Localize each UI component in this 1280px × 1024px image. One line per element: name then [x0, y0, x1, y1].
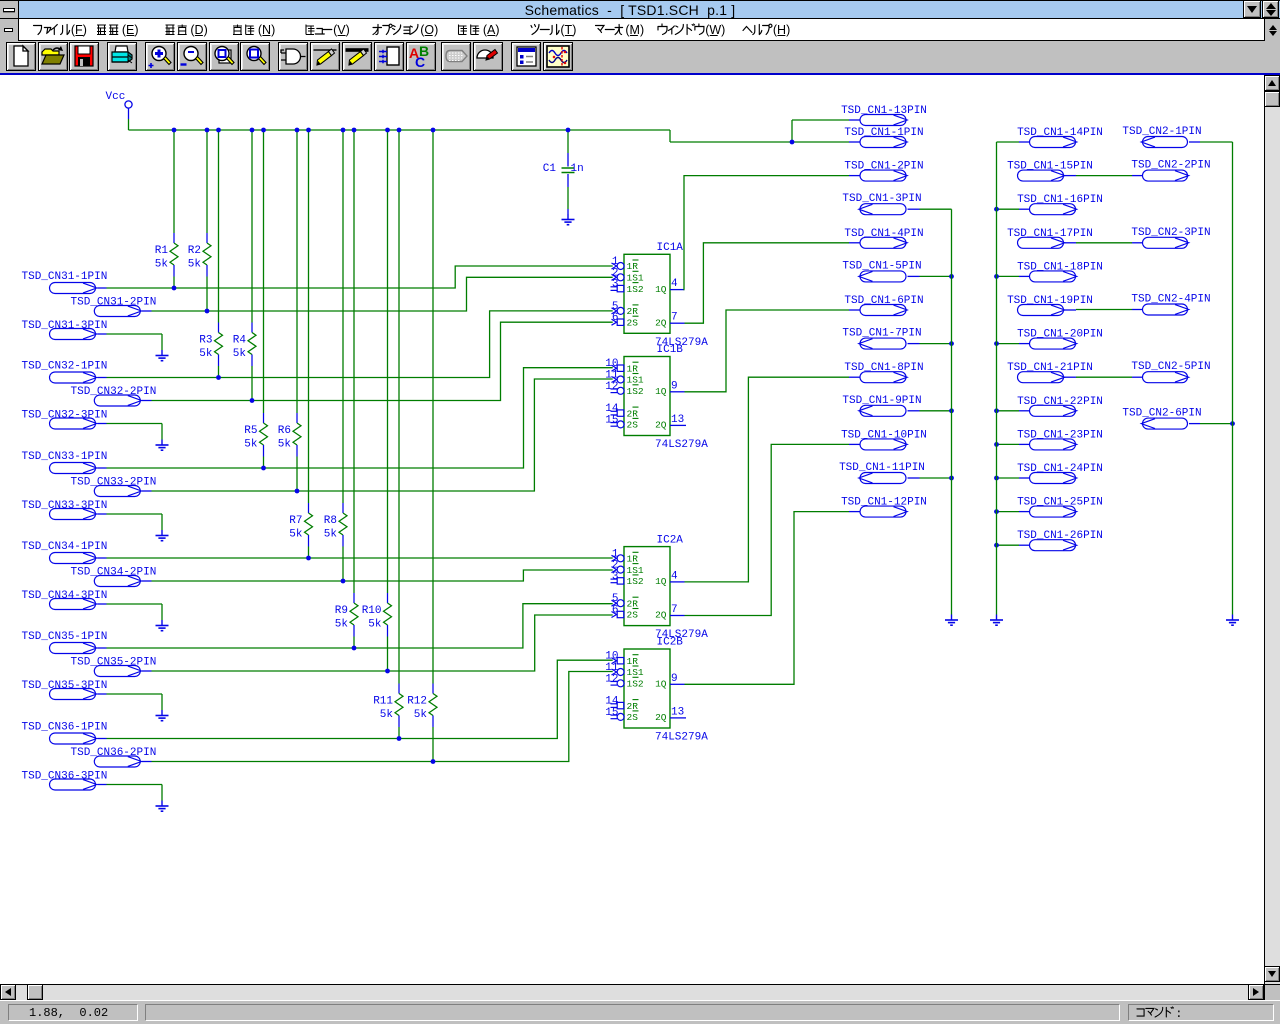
connector port TSD_CN31-2PIN [71, 297, 157, 317]
connector port TSD_CN2-5PIN [1131, 361, 1210, 383]
resistor R11 5k [373, 684, 403, 739]
menu item M [596, 23, 645, 37]
connector port TSD_CN33-2PIN [71, 477, 157, 497]
svg-text:1Q: 1Q [655, 284, 667, 295]
svg-text:1S2: 1S2 [627, 284, 644, 295]
svg-text:1Q: 1Q [655, 386, 667, 397]
connector port TSD_CN1-7PIN [842, 328, 921, 350]
MDI child restore button [1264, 19, 1280, 41]
svg-text:TSD_CN1-24PIN: TSD_CN1-24PIN [1017, 463, 1103, 475]
wire TSD_CN1-14PIN to ground bus [997, 141, 1020, 143]
wire TSD_CN1 to TSD_CN2-3PIN [1076, 242, 1132, 244]
svg-text:TSD_CN1-1PIN: TSD_CN1-1PIN [844, 127, 923, 139]
wire IC1A pin 7 to TSD_CN1-4PIN [685, 243, 850, 323]
svg-text:1S1: 1S1 [627, 273, 644, 284]
svg-text:TSD_CN1-23PIN: TSD_CN1-23PIN [1017, 429, 1103, 441]
svg-text:TSD_CN1-14PIN: TSD_CN1-14PIN [1017, 127, 1103, 139]
svg-text:TSD_CN34-2PIN: TSD_CN34-2PIN [71, 567, 157, 579]
svg-text:(O): (O) [420, 23, 438, 37]
wire TSD_CN35-2PIN to IC2A pin 6 [152, 615, 613, 671]
svg-text:R7: R7 [289, 515, 302, 527]
wire C1 to ground [567, 187, 569, 209]
menu bar [0, 19, 1280, 41]
wire TSD_CN1-14..26 ground bus [996, 142, 998, 615]
toolbar button 4 [107, 42, 137, 71]
op-amp / latch IC1B 74LS279A [605, 344, 708, 451]
status bar [0, 1000, 1280, 1024]
menu item T [531, 23, 576, 37]
connector port TSD_CN33-3PIN [22, 500, 108, 520]
toolbar button 7 [209, 42, 239, 71]
svg-text:1n: 1n [571, 163, 584, 175]
wire TSD_CN1-24PIN to ground bus [994, 476, 1019, 481]
toolbar button 14 [441, 42, 471, 71]
wire Vcc pull-up column for R5 [261, 128, 266, 413]
connector port TSD_CN1-2PIN [844, 161, 923, 182]
connector port TSD_CN34-3PIN [22, 590, 108, 610]
svg-text:7: 7 [671, 312, 678, 324]
connector port TSD_CN32-2PIN [71, 386, 157, 406]
connector port TSD_CN34-1PIN [22, 541, 108, 564]
menu item F [34, 23, 87, 37]
wire TSD_CN1-26PIN to ground bus [994, 543, 1019, 548]
menu labels (drawn glyphs) [0, 0, 1280, 41]
svg-text:TSD_CN32-1PIN: TSD_CN32-1PIN [22, 361, 108, 373]
svg-text:TSD_CN33-2PIN: TSD_CN33-2PIN [71, 477, 157, 489]
connector port TSD_CN1-10PIN [841, 429, 927, 450]
connector port TSD_CN1-9PIN [842, 395, 921, 417]
wire TSD_CN35-1PIN to IC2A pin 5 [107, 604, 613, 648]
svg-text:TSD_CN1-6PIN: TSD_CN1-6PIN [844, 295, 923, 307]
connector port TSD_CN2-3PIN [1131, 227, 1210, 249]
svg-text:1R: 1R [627, 656, 639, 667]
junction Vcc bus / TSD_CN1-13PIN branch [790, 140, 795, 145]
resistor R6 5k [278, 413, 301, 491]
wire TSD_CN33-2PIN to IC1B pin 11 [152, 379, 613, 491]
ground for TSD_CN1 odd pins [945, 615, 958, 626]
svg-text:2Q: 2Q [655, 317, 667, 328]
svg-text:TSD_CN36-1PIN: TSD_CN36-1PIN [22, 722, 108, 734]
wire TSD_CN33-3PIN to ground [107, 514, 163, 530]
menu item N [233, 23, 275, 37]
toolbar button 9 [278, 42, 308, 71]
ground for TSD_CN31-3PIN [156, 350, 169, 361]
wire TSD_CN36-2PIN to IC2B pin 11 [152, 672, 613, 762]
svg-text:4: 4 [671, 278, 678, 290]
menu item V [306, 23, 350, 37]
wire TSD_CN32-1PIN to IC1A pin 5 [107, 311, 613, 378]
connector port TSD_CN1-15PIN [1007, 161, 1093, 182]
connector port TSD_CN36-2PIN [71, 747, 157, 767]
wire TSD_CN31-1PIN to IC1A pin 1 [107, 266, 613, 288]
op-amp / latch IC1A 74LS279A [611, 242, 709, 349]
svg-text:1S2: 1S2 [627, 386, 644, 397]
corner [1264, 984, 1280, 1000]
svg-text:5k: 5k [335, 619, 349, 631]
wire Vcc pull-up column for R12 [431, 128, 436, 684]
resistor R3 5k [199, 323, 222, 378]
svg-text:2Q: 2Q [655, 610, 667, 621]
svg-text:1S1: 1S1 [627, 565, 644, 576]
svg-text:TSD_CN1-20PIN: TSD_CN1-20PIN [1017, 329, 1103, 341]
svg-text:5k: 5k [324, 529, 338, 541]
svg-text:5k: 5k [414, 709, 428, 721]
svg-text:5k: 5k [278, 439, 292, 451]
wire Vcc pull-up column for R6 [295, 128, 300, 413]
connector port TSD_CN1-13PIN [841, 105, 927, 126]
svg-text:(A): (A) [483, 23, 500, 37]
window title bar [0, 0, 1280, 19]
svg-text:(F): (F) [71, 23, 87, 37]
svg-text:(D): (D) [190, 23, 207, 37]
svg-text:C1: C1 [543, 163, 557, 175]
resistor R8 5k [324, 503, 347, 581]
wire TSD_CN31-3PIN to ground [107, 334, 163, 350]
toolbar button 17 [543, 42, 573, 71]
svg-text:TSD_CN36-2PIN: TSD_CN36-2PIN [71, 747, 157, 759]
svg-text:TSD_CN33-1PIN: TSD_CN33-1PIN [22, 451, 108, 463]
svg-text:R8: R8 [324, 515, 337, 527]
connector port TSD_CN1-19PIN [1007, 295, 1093, 316]
wire Vcc pull-up column for R9 [352, 128, 357, 593]
connector port TSD_CN1-26PIN [1017, 530, 1103, 551]
wire TSD_CN1 to TSD_CN2-5PIN [1076, 376, 1132, 378]
wire TSD_CN1 to TSD_CN2-4PIN [1076, 309, 1132, 311]
wire Vcc bus [129, 119, 850, 142]
svg-text:(E): (E) [122, 23, 139, 37]
svg-text:5k: 5k [188, 259, 202, 271]
capacitor C1 1n [543, 153, 584, 187]
svg-text:5k: 5k [199, 348, 213, 360]
resistor R12 5k [407, 684, 437, 762]
svg-text:TSD_CN1-2PIN: TSD_CN1-2PIN [844, 161, 923, 173]
resistor R4 5k [233, 323, 256, 401]
wire TSD_CN1 to TSD_CN2-2PIN [1076, 175, 1132, 177]
connector port TSD_CN35-3PIN [22, 680, 108, 700]
svg-text:TSD_CN1-18PIN: TSD_CN1-18PIN [1017, 261, 1103, 273]
svg-text:(W): (W) [705, 23, 725, 37]
system menu box [0, 0, 19, 19]
wire Vcc to C1 [566, 128, 571, 153]
resistor R1 5k [155, 233, 178, 288]
wire TSD_CN1-7PIN to ground bus [920, 341, 954, 346]
toolbar button 5 [145, 42, 175, 71]
svg-text:5k: 5k [155, 259, 169, 271]
ground for TSD_CN36-3PIN [156, 801, 169, 812]
vertical scrollbar [1264, 75, 1280, 984]
svg-text:9: 9 [671, 380, 678, 392]
ground for TSD_CN32-3PIN [156, 440, 169, 451]
connector port TSD_CN32-1PIN [22, 361, 108, 384]
svg-text:R10: R10 [362, 605, 382, 617]
wire Vcc pull-up column for R10 [385, 128, 390, 593]
wire TSD_CN1-23PIN to ground bus [994, 442, 1019, 447]
svg-text:TSD_CN1-22PIN: TSD_CN1-22PIN [1017, 396, 1103, 408]
svg-text:5k: 5k [380, 709, 394, 721]
svg-text:R6: R6 [278, 425, 291, 437]
wire TSD_CN1-9PIN to ground bus [920, 408, 954, 413]
svg-text:2R: 2R [627, 598, 639, 609]
connector port TSD_CN31-3PIN [22, 320, 108, 340]
svg-text:5k: 5k [233, 348, 247, 360]
wire Vcc pull-up column for R8 [341, 128, 346, 503]
svg-text:1R: 1R [627, 363, 639, 374]
svg-text:C: C [415, 54, 425, 69]
svg-text:R12: R12 [407, 696, 427, 708]
connector port TSD_CN36-3PIN [22, 771, 108, 791]
toolbar button 8 [240, 42, 270, 71]
svg-text:IC1A: IC1A [657, 242, 684, 254]
svg-text:1S1: 1S1 [627, 375, 644, 386]
wire TSD_CN1-3PIN to ground bus [920, 208, 952, 210]
toolbar button 2 [38, 42, 68, 71]
connector port TSD_CN1-3PIN [842, 193, 921, 215]
svg-text:R11: R11 [373, 696, 393, 708]
svg-text:R9: R9 [335, 605, 348, 617]
connector port TSD_CN2-2PIN [1131, 160, 1210, 182]
connector port TSD_CN2-6PIN [1122, 408, 1201, 430]
wire TSD_CN36-1PIN to IC2B pin 10 [107, 660, 613, 738]
svg-text:(M): (M) [625, 23, 644, 37]
svg-text:74LS279A: 74LS279A [655, 439, 708, 451]
svg-text:2Q: 2Q [655, 712, 667, 723]
svg-text:74LS279A: 74LS279A [655, 732, 708, 744]
svg-text:5k: 5k [244, 439, 258, 451]
svg-text:TSD_CN1-25PIN: TSD_CN1-25PIN [1017, 497, 1103, 509]
connector port TSD_CN1-6PIN [844, 295, 923, 316]
ground for TSD_CN34-3PIN [156, 620, 169, 631]
svg-text:TSD_CN1-10PIN: TSD_CN1-10PIN [841, 429, 927, 441]
svg-text:2S: 2S [627, 610, 639, 621]
wire TSD_CN34-3PIN to ground [107, 604, 163, 620]
connector port TSD_CN1-18PIN [1017, 261, 1103, 282]
connector port TSD_CN35-1PIN [22, 631, 108, 654]
horizontal scrollbar [0, 984, 1264, 1000]
ground for TSD_CN35-3PIN [156, 710, 169, 721]
svg-text:5k: 5k [289, 529, 303, 541]
menu item D [166, 23, 208, 37]
menu item H [743, 23, 790, 37]
connector port TSD_CN1-12PIN [841, 497, 927, 517]
wire TSD_CN31-2PIN to IC1A pin 2 [152, 277, 613, 311]
svg-text:(H): (H) [773, 23, 790, 37]
wire TSD_CN32-3PIN to ground [107, 424, 163, 440]
connector port TSD_CN35-2PIN [71, 657, 157, 677]
connector port TSD_CN33-1PIN [22, 451, 108, 474]
wire Vcc pull-up column for R3 [216, 128, 221, 323]
wire Vcc pull-up column for R2 [205, 128, 210, 233]
svg-text:TSD_CN1-4PIN: TSD_CN1-4PIN [844, 228, 923, 240]
toolbar separator line [0, 73, 1280, 75]
wire Vcc pull-up column for R4 [250, 128, 255, 323]
svg-text:1Q: 1Q [655, 679, 667, 690]
svg-text:2R: 2R [627, 408, 639, 419]
connector port TSD_CN1-20PIN [1017, 329, 1103, 350]
toolbar button 10 [310, 42, 340, 71]
MDI child system box [0, 19, 19, 41]
svg-text:IC2B: IC2B [657, 637, 684, 649]
svg-text:2Q: 2Q [655, 420, 667, 431]
svg-text:IC2A: IC2A [657, 534, 684, 546]
svg-text:7: 7 [671, 604, 678, 616]
wire TSD_CN33-1PIN to IC1B pin 10 [107, 368, 613, 468]
svg-text:(N): (N) [258, 23, 275, 37]
svg-text:TSD_CN31-2PIN: TSD_CN31-2PIN [71, 297, 157, 309]
wire TSD_CN36-3PIN to ground [107, 785, 163, 801]
wire IC2A pin 4 to TSD_CN1-8PIN [685, 377, 850, 582]
op-amp / latch IC2A 74LS279A [611, 534, 709, 641]
svg-text:R3: R3 [199, 335, 212, 347]
connector port TSD_CN36-1PIN [22, 722, 108, 745]
svg-text:TSD_CN35-2PIN: TSD_CN35-2PIN [71, 657, 157, 669]
connector port TSD_CN32-3PIN [22, 410, 108, 430]
svg-text:2S: 2S [627, 420, 639, 431]
connector port TSD_CN1-14PIN [1017, 127, 1103, 148]
junction dots at pull-up resistor rows [172, 286, 436, 764]
svg-text:Vcc: Vcc [106, 91, 126, 103]
svg-text:1Q: 1Q [655, 576, 667, 587]
svg-text:13: 13 [671, 414, 684, 426]
menu item O [373, 23, 438, 37]
connector port TSD_CN1-23PIN [1017, 429, 1103, 450]
wire IC1B pin 9 to TSD_CN1-6PIN [685, 310, 850, 392]
op-amp / latch IC2B 74LS279A [605, 637, 708, 744]
toolbar button 12 [374, 42, 404, 71]
svg-text:TSD_CN32-2PIN: TSD_CN32-2PIN [71, 386, 157, 398]
connector port TSD_CN1-24PIN [1017, 463, 1103, 484]
svg-text:2R: 2R [627, 306, 639, 317]
wire TSD_CN1-22PIN to ground bus [994, 408, 1019, 413]
toolbar button 6 [177, 42, 207, 71]
connector port TSD_CN1-4PIN [844, 228, 923, 249]
svg-text:13: 13 [671, 706, 684, 718]
svg-text:1R: 1R [627, 554, 639, 565]
toolbar button 11 [342, 42, 372, 71]
wire TSD_CN1-11PIN to ground bus [920, 476, 954, 481]
wire IC2A pin 7 to TSD_CN1-10PIN [685, 444, 850, 615]
ground for TSD_CN2 pins [1226, 615, 1239, 626]
toolbar [0, 41, 1280, 73]
title text [0, 2, 1260, 18]
svg-text:2S: 2S [627, 712, 639, 723]
wire Vcc pull-up column for R7 [306, 128, 311, 503]
wire Vcc pull-up column for R11 [397, 128, 402, 684]
svg-text:TSD_CN1-26PIN: TSD_CN1-26PIN [1017, 530, 1103, 542]
svg-text:TSD_CN1-16PIN: TSD_CN1-16PIN [1017, 194, 1103, 206]
svg-text:TSD_CN31-1PIN: TSD_CN31-1PIN [22, 271, 108, 283]
wire TSD_CN1-18PIN to ground bus [994, 274, 1019, 279]
status command label [1137, 1007, 1182, 1021]
toolbar button 3 [69, 42, 99, 71]
connector port TSD_CN31-1PIN [22, 271, 108, 294]
svg-text:1S2: 1S2 [627, 576, 644, 587]
menu item E [97, 23, 139, 37]
wire TSD_CN32-2PIN to IC1A pin 6 [152, 322, 613, 400]
svg-text:R5: R5 [244, 425, 257, 437]
ground below C1 [562, 209, 575, 225]
connector port TSD_CN1-21PIN [1007, 362, 1093, 383]
connector port TSD_CN1-22PIN [1017, 396, 1103, 417]
resistor R10 5k [362, 593, 392, 671]
svg-text:TSD_CN1-12PIN: TSD_CN1-12PIN [841, 497, 927, 509]
restore button [1262, 0, 1279, 18]
svg-text:1S2: 1S2 [627, 679, 644, 690]
svg-text:1R: 1R [627, 261, 639, 272]
svg-text:2S: 2S [627, 317, 639, 328]
resistor R2 5k [188, 233, 211, 311]
connector port TSD_CN1-8PIN [844, 362, 923, 383]
svg-text:TSD_CN1-8PIN: TSD_CN1-8PIN [844, 362, 923, 374]
menu item A [459, 23, 500, 37]
wire IC2B pin 9 to TSD_CN1-12PIN [685, 512, 850, 685]
minimize button [1243, 0, 1261, 18]
connector port TSD_CN1-17PIN [1007, 228, 1093, 249]
svg-text:2R: 2R [627, 701, 639, 712]
svg-text:R2: R2 [188, 245, 201, 257]
svg-text:9: 9 [671, 673, 678, 685]
menu item W [658, 23, 725, 37]
svg-text:IC1B: IC1B [657, 344, 684, 356]
toolbar button 15 [473, 42, 503, 71]
svg-text:1S1: 1S1 [627, 667, 644, 678]
power symbol Vcc [106, 91, 133, 119]
ground for TSD_CN33-3PIN [156, 530, 169, 541]
svg-text::: : [1175, 1007, 1182, 1021]
wire odd-pin ground bus (TSD_CN1-3,5,7,9,11) [951, 209, 953, 614]
svg-text:5k: 5k [368, 619, 382, 631]
connector port TSD_CN2-1PIN [1122, 126, 1201, 148]
wire TSD_CN2-1PIN to ground bus [1200, 141, 1233, 143]
svg-text:TSD_CN34-1PIN: TSD_CN34-1PIN [22, 541, 108, 553]
toolbar button 1 [6, 42, 36, 71]
svg-text:(T): (T) [560, 23, 576, 37]
connector port TSD_CN1-11PIN [839, 462, 925, 484]
resistor R7 5k [289, 503, 312, 558]
connector port TSD_CN1-5PIN [842, 260, 921, 282]
toolbar button 16 [511, 42, 541, 71]
svg-text:TSD_CN35-1PIN: TSD_CN35-1PIN [22, 631, 108, 643]
ground for TSD_CN1-14..26 pins [990, 615, 1003, 626]
wire TSD_CN34-1PIN to IC2A pin 1 [107, 557, 613, 559]
wire TSD_CN1-25PIN to ground bus [994, 509, 1019, 514]
wire TSD_CN1-5PIN to ground bus [920, 274, 954, 279]
connector port TSD_CN1-1PIN [844, 127, 923, 148]
connector port TSD_CN2-4PIN [1131, 294, 1210, 316]
svg-text:(V): (V) [333, 23, 350, 37]
resistor R9 5k [335, 593, 358, 648]
wire TSD_CN2-6PIN to ground bus [1200, 421, 1235, 426]
wire IC1A pin 4 to TSD_CN1-2PIN [684, 176, 849, 290]
svg-text:TSD_CN1-13PIN: TSD_CN1-13PIN [841, 105, 927, 117]
wire TSD_CN34-2PIN to IC2A pin 2 [152, 570, 613, 581]
connector port TSD_CN34-2PIN [71, 567, 157, 587]
svg-text:R4: R4 [233, 335, 247, 347]
connector port TSD_CN1-16PIN [1017, 194, 1103, 215]
svg-text:4: 4 [671, 570, 678, 582]
wire TSD_CN1-16PIN to ground bus [994, 207, 1019, 212]
wire TSD_CN35-3PIN to ground [107, 694, 163, 710]
wire TSD_CN1-20PIN to ground bus [994, 341, 1019, 346]
wire TSD_CN2 ground bus [1232, 142, 1234, 615]
svg-text:R1: R1 [155, 245, 169, 257]
toolbar button 13 [406, 42, 436, 71]
wire Vcc pull-up column for R1 [172, 128, 177, 233]
resistor R5 5k [244, 413, 267, 468]
connector port TSD_CN1-25PIN [1017, 497, 1103, 517]
